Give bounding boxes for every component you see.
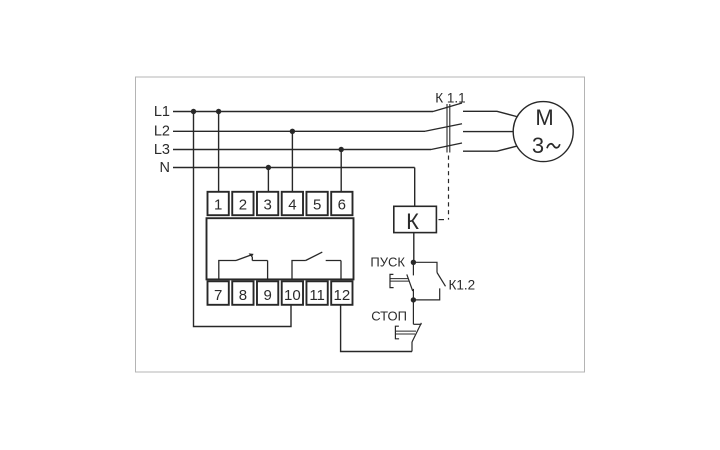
terminal 6 [331,192,352,215]
terminal 1 [208,192,229,215]
node start-bottom junction [411,297,416,302]
node L3 [173,149,431,151]
relay contact 10-12 [292,252,341,279]
junction L2 / terminal 4 [290,129,295,134]
wire terminal 12 down to stop button [341,305,412,352]
svg-text:3: 3 [532,133,544,158]
svg-text:7: 7 [214,287,222,304]
svg-text:ПУСК: ПУСК [370,255,405,270]
svg-text:5: 5 [313,196,321,213]
relay terminal block bottom row [208,281,353,305]
svg-text:L2: L2 [154,124,170,140]
contactor K1.1 linkage bar [447,104,450,153]
svg-text:6: 6 [338,196,346,213]
relay terminal block top row [208,192,353,215]
terminal 5 [306,192,327,215]
node L2 [173,130,425,132]
motor M [513,102,573,162]
contactor K1.1 pole L2 blade [425,124,462,132]
terminal 4 [282,192,303,215]
svg-text:1: 1 [214,196,222,213]
terminal 7 [208,281,229,305]
node L1 [173,111,433,113]
terminal 12 [331,281,352,305]
junction L1 / terminal 1 [216,109,221,114]
wire coil K to start button node [413,233,415,263]
svg-text:3: 3 [263,196,271,213]
junction L1 / left loop [191,109,196,114]
svg-text:К: К [406,209,419,234]
svg-text:К1.2: К1.2 [449,277,476,292]
wire N down to coil K [414,168,416,207]
linkage dash near coil [439,219,445,221]
terminal 11 [306,281,327,305]
svg-text:8: 8 [239,287,247,304]
junction L3 / terminal 6 [339,147,344,152]
svg-text:M: M [535,105,553,130]
wire N to terminal 3 [267,168,269,192]
svg-text:2: 2 [239,196,247,213]
svg-text:10: 10 [284,287,301,304]
arrow of contact 7-9 [249,253,254,257]
terminal 9 [257,281,278,305]
svg-text:СТОП: СТОП [371,308,407,323]
svg-text:L3: L3 [154,142,170,158]
terminal 3 [257,192,278,215]
contact K1.2 branch wires [413,262,445,300]
svg-text:N: N [160,160,170,176]
wire contactor to motor phase 1 [463,111,517,116]
coil K box [394,206,437,232]
svg-text:L1: L1 [154,104,170,120]
svg-text:4: 4 [288,196,296,213]
linkage dashed wire to coil K [448,156,450,220]
contactor K1.1 pole L3 blade [431,143,462,150]
terminal 2 [232,192,253,215]
terminal 10 [282,281,303,305]
svg-text:9: 9 [263,287,271,304]
wire contactor to motor phase 3 [463,146,517,151]
terminal 8 [232,281,253,305]
junction N / terminal 3 [266,165,271,170]
pushbutton START (NO) [390,262,413,300]
svg-text:12: 12 [334,287,351,304]
relay contact 7-9 [219,255,268,280]
wire contactor to motor phase 2 [463,131,513,133]
wire L1 to terminal 1 [218,112,220,192]
wire L2 to terminal 4 [291,131,293,192]
wire L1 down-around to terminal 10 [194,112,292,327]
pushbutton STOP (NC) [395,300,421,352]
relay body U1 [207,218,354,279]
node start-top junction [411,260,416,265]
wire L3 to terminal 6 [340,150,342,192]
node N [173,167,415,169]
svg-text:11: 11 [309,287,325,304]
contactor K1.1 pole L1 blade [433,103,462,112]
